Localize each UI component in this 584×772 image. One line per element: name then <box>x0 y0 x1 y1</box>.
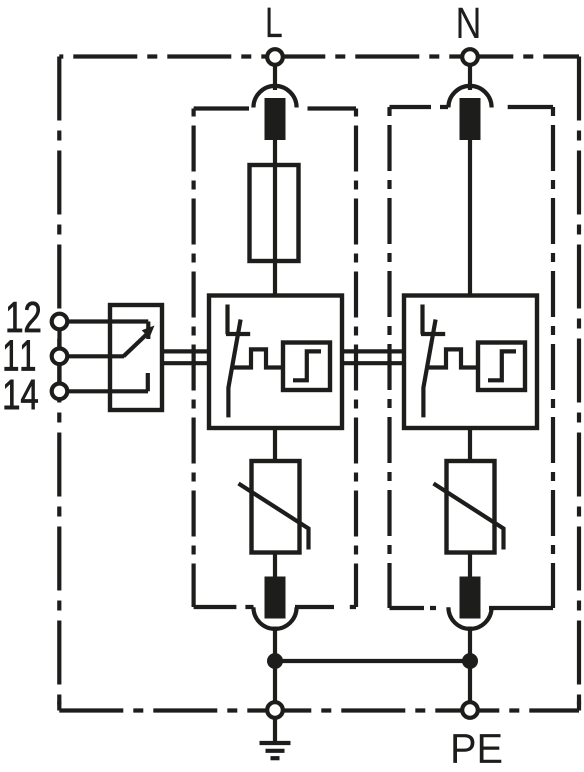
changeover contact box <box>110 305 162 410</box>
wire linking terminals 12 11 14 <box>57 313 61 400</box>
wire bottom plug N to junction <box>468 627 472 662</box>
bottom plug-in contact L: filled pin <box>265 577 286 619</box>
top plug-in contact L: arc <box>253 86 296 108</box>
disconnector N trip step symbol <box>488 351 516 380</box>
changeover contact bar 14 <box>146 373 150 391</box>
outer dashed enclosure border top <box>59 54 579 58</box>
top plug-in contact N: arc <box>448 86 491 108</box>
label 11 <box>5 340 35 370</box>
wire varistor L to bottom plug <box>273 553 277 579</box>
disconnector N switch tick <box>421 332 445 336</box>
varistor MOV L diagonal <box>239 484 309 550</box>
changeover contact bar 12 <box>146 322 150 340</box>
terminal circle 11 <box>52 349 68 365</box>
disconnector L step wave <box>232 349 284 367</box>
inner dashed module box L: right <box>354 109 358 608</box>
wire junction L to junction N <box>275 659 470 663</box>
junction dot L <box>267 653 283 669</box>
disconnector N step wave <box>427 349 479 367</box>
outer dashed enclosure border left <box>57 57 61 711</box>
terminal circle N <box>462 49 478 65</box>
disconnector N trip box <box>478 343 525 391</box>
disconnector box N outline <box>404 296 537 429</box>
ground symbol stem <box>273 718 277 741</box>
disconnector L switch blade <box>228 320 240 418</box>
wire N terminal to top plug contact <box>468 57 472 90</box>
fuse F1 in L path <box>250 165 299 261</box>
label 14 <box>5 380 38 409</box>
terminal circle 14 <box>52 384 68 400</box>
label L <box>268 8 282 37</box>
wire L path through fuse to disconnector box <box>273 140 277 296</box>
bottom plug-in contact N: filled pin <box>460 577 481 619</box>
disconnector L switch lead <box>225 305 229 335</box>
bottom plug-in contact L: arc <box>253 607 296 629</box>
mechanical link double line left upper <box>162 349 209 353</box>
wire junction L to earth terminal <box>273 661 277 703</box>
inner dashed module box N: left <box>387 107 391 608</box>
varistor MOV N body <box>447 461 495 553</box>
label PE <box>453 734 501 763</box>
ground symbol bar 3 <box>271 756 280 760</box>
disconnector box L outline <box>209 296 342 429</box>
outer border bottom-right corner stub <box>577 702 581 711</box>
inner dashed module box N: right <box>551 107 555 608</box>
terminal circle earth <box>267 702 283 718</box>
outer border bottom-left corner stub <box>57 702 61 711</box>
disconnector N switch lead <box>420 305 424 335</box>
disconnector N switch blade <box>423 320 435 418</box>
top plug-in contact N: filled pin <box>460 98 481 140</box>
junction dot N <box>462 653 478 669</box>
mechanical link double line middle lower <box>342 361 404 365</box>
label 12 <box>8 302 40 332</box>
wire bottom plug L to junction <box>273 627 277 662</box>
remote contact wire 14 <box>60 389 149 393</box>
wire box N to varistor N <box>468 428 472 461</box>
disconnector L trip step symbol <box>293 351 321 380</box>
inner dashed module box N: bottom <box>390 606 554 610</box>
mechanical link double line left lower <box>162 361 209 365</box>
mechanical link double line middle upper <box>342 349 404 353</box>
terminal circle PE <box>462 702 478 718</box>
wire box L to varistor L <box>273 428 277 461</box>
top plug-in contact L: filled pin <box>265 98 286 140</box>
disconnector L trip box <box>283 343 330 391</box>
label N <box>459 8 479 38</box>
ground symbol bar 2 <box>266 749 285 753</box>
wire junction N to PE terminal <box>468 661 472 703</box>
varistor MOV L body <box>252 461 300 553</box>
inner dashed module box L: left <box>192 109 196 608</box>
ground symbol bar 1 <box>260 741 291 745</box>
changeover blade <box>124 334 148 357</box>
wire N path plug to disconnector box <box>468 140 472 296</box>
changeover blade arrowhead <box>142 326 155 339</box>
disconnector L switch tick <box>226 332 250 336</box>
inner dashed module box N: top <box>390 105 554 109</box>
terminal circle 12 <box>52 314 68 330</box>
terminal circle L <box>267 49 283 65</box>
remote contact wire 11 <box>60 354 125 358</box>
wire L terminal to top plug contact <box>273 57 277 90</box>
wire varistor N to bottom plug <box>468 553 472 579</box>
bottom plug-in contact N: arc <box>448 607 491 629</box>
inner dashed module box L: bottom <box>194 605 356 609</box>
outer dashed enclosure border bottom <box>59 708 579 712</box>
inner dashed module box L: top <box>194 106 356 110</box>
remote contact wire 12 <box>60 319 149 323</box>
outer dashed enclosure border right <box>577 57 581 711</box>
varistor MOV N diagonal <box>434 484 504 550</box>
